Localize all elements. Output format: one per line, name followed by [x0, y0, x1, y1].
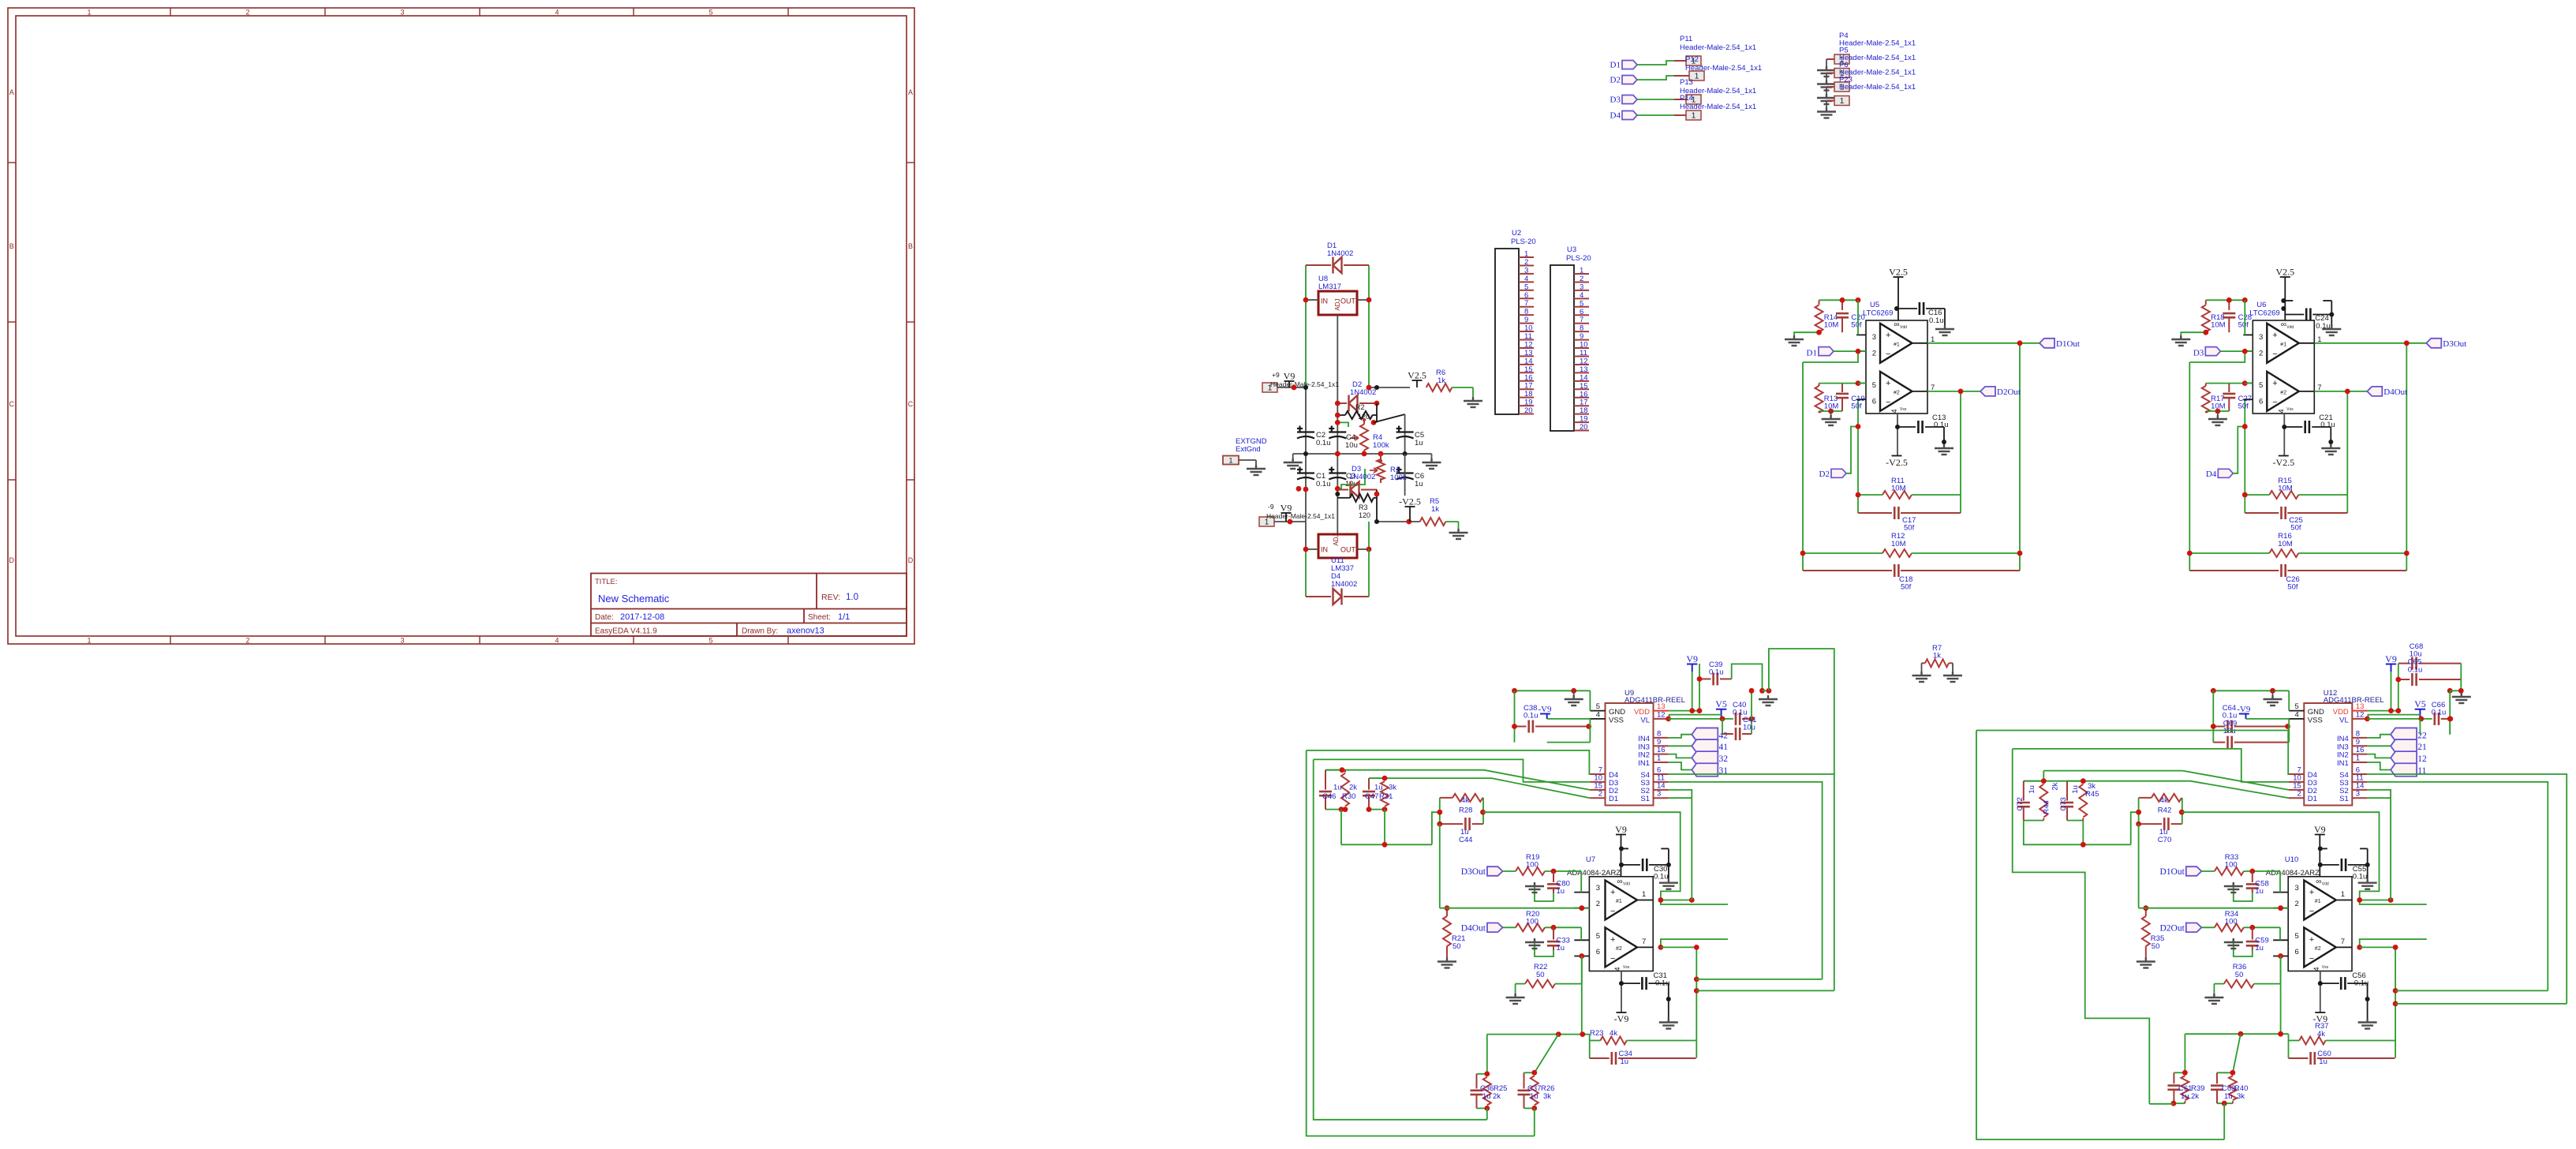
- pin 1: [2299, 335, 2322, 344]
- svg-text:D3Out: D3Out: [2443, 339, 2466, 349]
- power flag -V9: [2312, 1012, 2327, 1024]
- pin 3: [2273, 884, 2299, 893]
- svg-text:0.1u: 0.1u: [2408, 666, 2423, 675]
- svg-text:−: −: [1886, 350, 1890, 359]
- svg-text:3: 3: [2295, 884, 2299, 893]
- junction: [2365, 717, 2370, 722]
- svg-text:1u: 1u: [1482, 1092, 1491, 1101]
- junction: [1579, 905, 1584, 911]
- svg-text:EasyEDA V4.11.9: EasyEDA V4.11.9: [595, 627, 657, 636]
- resistor R37 4k: [2289, 1022, 2395, 1045]
- svg-text:D1: D1: [1610, 61, 1621, 70]
- wire: [2184, 1034, 2185, 1072]
- resistor R33 100: [2215, 853, 2280, 875]
- svg-text:IN1: IN1: [2337, 759, 2349, 768]
- capacitor C70 1u: [2139, 818, 2182, 844]
- svg-text:16: 16: [2356, 746, 2365, 754]
- junction: [1406, 519, 1411, 525]
- svg-text:D: D: [9, 556, 14, 564]
- wire S2 drop: [1669, 790, 1692, 900]
- svg-text:Vdd: Vdd: [1623, 882, 1630, 887]
- svg-text:50f: 50f: [2238, 321, 2249, 330]
- svg-text:1.0: 1.0: [846, 593, 858, 602]
- wire: [1534, 1108, 1535, 1136]
- pin 2: [1574, 900, 1600, 908]
- svg-text:1u: 1u: [1415, 439, 1423, 447]
- svg-text:1u: 1u: [1415, 480, 1423, 488]
- svg-text:OUT: OUT: [1340, 546, 1356, 554]
- svg-text:V9: V9: [1686, 653, 1698, 664]
- net port D3: [2193, 347, 2253, 358]
- svg-text:1u: 1u: [1374, 784, 1383, 792]
- wire VL jog: [1669, 715, 1722, 719]
- pin 14 S2: [2339, 781, 2367, 795]
- wire: [2279, 871, 2281, 893]
- wire: [1857, 300, 1859, 335]
- svg-text:19: 19: [1524, 399, 1533, 407]
- svg-text:1: 1: [1695, 73, 1699, 81]
- svg-text:U7: U7: [1586, 855, 1595, 864]
- svg-text:D2Out: D2Out: [1997, 387, 2021, 397]
- wire: [1580, 871, 1582, 893]
- svg-text:1: 1: [1524, 250, 1528, 259]
- junction: [2357, 897, 2362, 903]
- wire: [1306, 596, 1331, 597]
- net port D3Out: [1461, 866, 1516, 877]
- svg-text:S1: S1: [2339, 795, 2349, 803]
- svg-text:10M: 10M: [1891, 485, 1906, 493]
- svg-text:∞: ∞: [1617, 878, 1622, 886]
- pin 6 S4: [2339, 766, 2367, 780]
- wire: [1751, 691, 1752, 719]
- svg-text:4k: 4k: [2160, 796, 2168, 805]
- svg-text:4k: 4k: [1461, 796, 1469, 805]
- svg-text:0.1u: 0.1u: [2320, 421, 2335, 429]
- junction: [1767, 688, 1772, 694]
- svg-text:12: 12: [1524, 340, 1533, 349]
- svg-text:#1: #1: [2315, 899, 2321, 904]
- wire S4 loop: [1669, 649, 1834, 774]
- wire wiper link: [1374, 414, 1405, 422]
- net port D1Out: [1927, 339, 2080, 349]
- wire: [1514, 691, 1516, 742]
- wire: [1368, 300, 1370, 387]
- wire: [2288, 719, 2290, 743]
- pin 2: [1856, 350, 1876, 358]
- svg-text:∞: ∞: [2316, 878, 2321, 886]
- svg-text:IN: IN: [1321, 298, 1328, 305]
- svg-text:13: 13: [1580, 365, 1588, 374]
- cluster C72 R44: [2016, 781, 2060, 821]
- svg-text:∞: ∞: [1894, 320, 1899, 329]
- capacitor C68 10u: [2398, 642, 2462, 670]
- svg-text:3: 3: [2356, 790, 2360, 799]
- svg-text:5: 5: [1580, 299, 1583, 308]
- wire: [2149, 1103, 2174, 1105]
- svg-text:11: 11: [1524, 332, 1532, 341]
- svg-text:2: 2: [245, 9, 249, 17]
- wire R28 out: [1483, 812, 1681, 900]
- junction: [2447, 688, 2453, 694]
- junction: [1335, 413, 1340, 418]
- pin 11 S3: [1640, 773, 1668, 788]
- svg-text:PLS-20: PLS-20: [1566, 254, 1591, 263]
- pin 7: [1912, 384, 1935, 392]
- capacitor C25 50f: [2245, 507, 2347, 533]
- svg-text:1u: 1u: [1530, 1092, 1538, 1101]
- wire: [2223, 1103, 2225, 1140]
- svg-text:1u: 1u: [1557, 887, 1565, 896]
- svg-text:10: 10: [1524, 324, 1533, 333]
- cluster C63 R40: [2211, 1072, 2237, 1103]
- resistor R17 10M: [2202, 384, 2226, 413]
- svg-text:13: 13: [1524, 349, 1533, 357]
- resistor R2 120: [1337, 403, 1377, 421]
- svg-text:C72: C72: [2016, 797, 2025, 810]
- wire Vss: [2283, 414, 2285, 455]
- resistor R36 50: [2204, 963, 2280, 1004]
- wire S1 stub: [1669, 797, 1692, 799]
- capacitor C19 50f: [1836, 384, 1865, 411]
- svg-text:V2.5: V2.5: [1408, 370, 1426, 381]
- wire: [1368, 522, 1370, 549]
- power flag V9: [1686, 653, 1698, 672]
- junction: [1856, 380, 1861, 386]
- pin 8 Vdd marker: [1617, 878, 1630, 887]
- svg-text:6: 6: [1872, 398, 1876, 406]
- pin 6: [1856, 398, 1876, 406]
- wire pin7 jog stub: [1661, 939, 1728, 947]
- junction: [1374, 492, 1380, 497]
- wire gnd bus: [1515, 690, 1591, 691]
- wire -V2.5 row: [1377, 521, 1420, 522]
- wire: [2212, 691, 2214, 742]
- resistor R14 10M: [1815, 300, 1839, 332]
- svg-text:3: 3: [400, 637, 404, 645]
- svg-text:ADG411BR-REEL: ADG411BR-REEL: [2324, 696, 2384, 705]
- svg-text:7: 7: [1524, 299, 1528, 308]
- svg-text:100: 100: [1526, 918, 1538, 926]
- svg-text:10M: 10M: [2278, 485, 2293, 493]
- resistor R3 120: [1337, 494, 1377, 519]
- pin 9 IN3: [1638, 738, 1668, 752]
- capacitor C80 1u: [1525, 871, 1570, 901]
- svg-text:2k: 2k: [2191, 1092, 2199, 1101]
- resistor R20 100: [1516, 910, 1581, 931]
- svg-text:LTC6269: LTC6269: [1863, 309, 1893, 318]
- capacitor C20 50f: [1836, 300, 1865, 332]
- svg-text:2: 2: [1598, 790, 1602, 799]
- svg-text:5: 5: [1524, 283, 1528, 291]
- junction: [1531, 1070, 1537, 1076]
- capacitor C44 1u: [1440, 818, 1483, 844]
- header P11 labels: [1680, 35, 1756, 52]
- capacitor C2 0.1u: [1297, 426, 1331, 448]
- header P6 pin with ground: [1817, 82, 1849, 104]
- svg-text:Vss: Vss: [1900, 407, 1907, 412]
- svg-text:22: 22: [2417, 732, 2427, 741]
- svg-text:10M: 10M: [1891, 540, 1906, 548]
- net port D2: [1819, 424, 1861, 479]
- junction: [1335, 492, 1340, 496]
- junction: [1694, 945, 1699, 950]
- svg-text:0.1u: 0.1u: [2432, 709, 2447, 717]
- power flag V5: [1715, 698, 1727, 719]
- net port D4: [2206, 424, 2248, 479]
- wire slant: [2233, 1034, 2241, 1072]
- cluster C61 R39: [2167, 1072, 2189, 1103]
- resistor R7 1k: [1922, 644, 1953, 667]
- svg-text:Date:: Date:: [595, 613, 614, 622]
- svg-text:V5: V5: [1715, 698, 1727, 709]
- svg-text:6: 6: [1524, 291, 1528, 300]
- pin 3: [2243, 333, 2263, 342]
- junction: [1689, 897, 1695, 903]
- wire D1 net: [1369, 778, 1590, 798]
- net port D3Out: [2314, 339, 2466, 349]
- svg-text:1u: 1u: [2181, 1092, 2189, 1101]
- svg-text:D1Out: D1Out: [2159, 867, 2185, 877]
- junction: [1367, 807, 1372, 812]
- op-amp #2 triangle: [2304, 927, 2336, 967]
- diode D1 1N4002: [1306, 241, 1369, 274]
- ground: [1449, 522, 1468, 539]
- header P5 pin with ground: [1817, 69, 1849, 91]
- resistor R19 100: [1516, 853, 1581, 875]
- wire: [1439, 798, 1441, 824]
- svg-text:100k: 100k: [1373, 441, 1389, 450]
- svg-text:1N4002: 1N4002: [1350, 388, 1376, 397]
- svg-text:D1: D1: [1609, 795, 1618, 803]
- resistor R16 10M: [2187, 532, 2410, 557]
- svg-text:18: 18: [1580, 406, 1588, 415]
- wire: [1305, 549, 1307, 597]
- svg-text:50f: 50f: [1851, 321, 1862, 330]
- wire feedback rail: [2189, 362, 2190, 571]
- svg-text:D4: D4: [1610, 111, 1621, 121]
- wire output rail 2: [2019, 343, 2021, 571]
- pin 8 Vdd marker: [2281, 320, 2294, 330]
- wire: [2449, 691, 2451, 734]
- junction: [1437, 822, 1442, 827]
- svg-text:100: 100: [1526, 861, 1538, 870]
- wire stub: [1547, 742, 1591, 743]
- wire: [2246, 718, 2290, 720]
- svg-text:15: 15: [1580, 382, 1588, 391]
- svg-text:1: 1: [2341, 890, 2345, 899]
- junction: [2318, 846, 2323, 851]
- wire VDD: [2367, 710, 2398, 712]
- trimmer R1 100k: [1370, 454, 1407, 483]
- junction: [2171, 1101, 2177, 1106]
- junction: [2242, 380, 2248, 386]
- svg-text:#2: #2: [1616, 946, 1622, 952]
- junction: [2238, 1031, 2244, 1037]
- junction: [1749, 688, 1755, 694]
- svg-text:V9: V9: [2314, 824, 2326, 835]
- svg-text:D3: D3: [1610, 95, 1621, 105]
- svg-text:Vdd: Vdd: [2322, 882, 2329, 887]
- wire: [1404, 414, 1406, 454]
- svg-text:ADG411BR-REEL: ADG411BR-REEL: [1624, 696, 1685, 705]
- svg-text:D3Out: D3Out: [1461, 867, 1486, 877]
- wire: [1794, 332, 1819, 335]
- wire: [2138, 798, 2140, 824]
- wire VDD: [1669, 710, 1699, 712]
- pin 2 D1: [1590, 790, 1618, 804]
- svg-text:ADJ: ADJ: [1334, 298, 1341, 310]
- sheet border frame: [8, 8, 914, 645]
- svg-text:0.1u: 0.1u: [2353, 873, 2368, 881]
- svg-text:1u: 1u: [2028, 785, 2036, 794]
- wire slant: [1535, 1035, 1559, 1073]
- svg-text:3k: 3k: [1389, 784, 1396, 792]
- junction: [1816, 330, 1822, 335]
- pin 16 IN2: [1638, 746, 1668, 760]
- junction: [2136, 810, 2141, 815]
- svg-text:V9: V9: [1284, 371, 1295, 382]
- svg-text:-9: -9: [1268, 503, 1274, 511]
- wire pin7 down: [1661, 947, 1696, 1057]
- wire: [1384, 810, 1385, 845]
- svg-text:−: −: [2309, 954, 2314, 964]
- svg-text:5: 5: [2295, 702, 2299, 711]
- wire pin7 down: [2360, 947, 2395, 1057]
- wire: [2131, 812, 2139, 844]
- net port 21: [2367, 739, 2427, 753]
- wire: [2391, 672, 2392, 711]
- svg-text:V2.5: V2.5: [1889, 267, 1908, 278]
- wire D2 rail: [2244, 399, 2245, 513]
- svg-text:11: 11: [1580, 349, 1587, 357]
- op-amp #1 triangle: [1606, 881, 1638, 920]
- wire pin1 stub: [1661, 900, 1728, 905]
- svg-text:1: 1: [1580, 267, 1583, 275]
- svg-text:8: 8: [1580, 324, 1583, 333]
- svg-text:IN4: IN4: [1638, 735, 1650, 743]
- svg-text:5: 5: [708, 9, 712, 17]
- junction: [1382, 842, 1388, 848]
- junction: [1303, 547, 1309, 552]
- svg-text:IN2: IN2: [2337, 751, 2349, 760]
- power flag -V9: [1614, 1012, 1629, 1024]
- resistor R28 4k: [1440, 794, 1483, 815]
- junction: [1374, 385, 1379, 390]
- junction: [1335, 401, 1340, 406]
- wire node row: [2185, 1033, 2288, 1035]
- capacitor C1 0.1u: [1297, 467, 1331, 489]
- svg-text:1u: 1u: [1557, 944, 1565, 953]
- junction: [2357, 945, 2362, 950]
- net port D2Out: [1927, 387, 2021, 397]
- wire outer loop D3: [1314, 759, 1487, 1119]
- junction: [2203, 330, 2208, 335]
- wire: [2395, 1003, 2567, 1005]
- wire pin2 row: [1440, 908, 1590, 909]
- header P23 pin with ground: [1817, 96, 1849, 118]
- svg-text:7: 7: [2341, 938, 2345, 946]
- junction: [1697, 708, 1703, 713]
- svg-text:−: −: [1610, 907, 1615, 916]
- net port D2Out: [2159, 923, 2214, 934]
- ground: [1565, 691, 1583, 705]
- pin 3 S1: [1640, 790, 1668, 804]
- svg-text:D3: D3: [2193, 349, 2204, 358]
- svg-text:1N4002: 1N4002: [1349, 473, 1375, 481]
- junction: [2393, 988, 2398, 994]
- wire ADJ rail: [1337, 315, 1338, 533]
- wire pin1 row: [2360, 900, 2391, 901]
- wire S2 drop: [2367, 790, 2391, 900]
- svg-text:+: +: [2272, 379, 2277, 388]
- svg-text:D1: D1: [1807, 349, 1817, 358]
- svg-text:C: C: [9, 400, 14, 408]
- svg-text:2: 2: [1872, 350, 1876, 358]
- svg-text:6: 6: [1596, 948, 1600, 956]
- junction: [1694, 988, 1699, 994]
- svg-text:15: 15: [1524, 365, 1533, 374]
- wire: [2460, 664, 2462, 691]
- svg-text:16: 16: [1580, 390, 1588, 399]
- svg-text:B: B: [9, 242, 14, 250]
- svg-text:6: 6: [2295, 948, 2299, 956]
- svg-text:2: 2: [1580, 275, 1583, 283]
- svg-text:GND: GND: [2308, 708, 2324, 717]
- svg-text:10: 10: [1580, 341, 1588, 350]
- svg-text:OUT: OUT: [1340, 298, 1356, 305]
- junction: [1580, 1031, 1585, 1037]
- wire: [1341, 844, 1432, 845]
- pin 8 IN4: [2337, 729, 2367, 743]
- svg-text:1: 1: [1840, 97, 1845, 106]
- net port 41: [1669, 739, 1729, 753]
- resistor R21 50: [1438, 905, 1465, 967]
- net port EXTGND ExtGnd: [1223, 437, 1267, 475]
- ground: [1759, 695, 1778, 705]
- svg-text:32: 32: [1719, 754, 1729, 764]
- junction: [2230, 1070, 2236, 1076]
- pin 1: [1637, 890, 1653, 900]
- svg-text:VDD: VDD: [2333, 708, 2349, 717]
- pin 2: [2243, 350, 2263, 358]
- svg-text:12: 12: [1580, 357, 1588, 365]
- svg-text:R45: R45: [2085, 790, 2099, 799]
- svg-text:2k: 2k: [2051, 782, 2059, 790]
- capacitor C31 0.1u: [1621, 971, 1678, 1029]
- wire: [1369, 387, 1410, 388]
- junction: [2388, 897, 2394, 903]
- net port D1Out: [2159, 866, 2214, 877]
- pin 4 VSS: [1590, 711, 1624, 725]
- svg-text:Vss: Vss: [2286, 407, 2294, 412]
- junction: [1335, 486, 1340, 492]
- pin 4 Vss marker: [2312, 965, 2329, 971]
- net port D3 to header P13: [1610, 95, 1701, 105]
- junction: [1571, 688, 1576, 694]
- junction: [1759, 688, 1765, 694]
- svg-text:2: 2: [2297, 790, 2301, 799]
- pin 7: [2299, 384, 2322, 392]
- svg-text:Header-Male-2.54_1x1: Header-Male-2.54_1x1: [1680, 43, 1756, 52]
- ground: [1943, 663, 1962, 682]
- pin 14 S2: [1640, 781, 1668, 795]
- header P12 labels: [1685, 55, 1762, 73]
- pin 7 D4: [2289, 766, 2317, 780]
- svg-text:0.1u: 0.1u: [1929, 316, 1944, 325]
- pin 1: [1912, 335, 1935, 344]
- svg-text:1u: 1u: [2255, 944, 2264, 953]
- svg-text:2017-12-08: 2017-12-08: [620, 612, 664, 622]
